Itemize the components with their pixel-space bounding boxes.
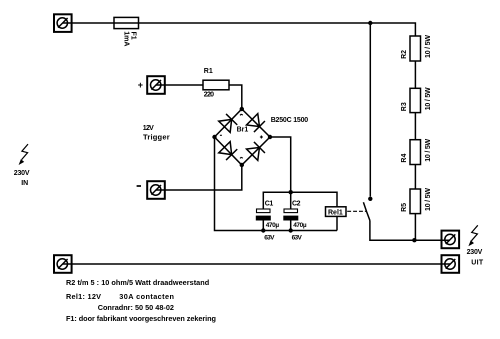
wire bridge bottom to minus terminal <box>156 165 242 190</box>
svg-text:230V: 230V <box>467 249 483 256</box>
svg-text:63V: 63V <box>292 234 303 241</box>
wire R3-R4 <box>414 113 416 140</box>
label 12V Trigger <box>143 125 170 142</box>
svg-text:12V: 12V <box>143 125 154 132</box>
svg-text:+: + <box>138 80 143 90</box>
terminal 230V-out lower <box>442 255 460 273</box>
cap top rail <box>263 192 337 209</box>
svg-text:R2: R2 <box>401 50 408 59</box>
notes text block <box>66 278 216 323</box>
junction node R-chain bottom <box>412 238 416 242</box>
svg-text:470µ: 470µ <box>266 222 280 229</box>
wire top rail from X1 to top-right corner <box>63 23 416 36</box>
mains arrow 230V uit <box>468 225 477 246</box>
svg-text:10 / 5W: 10 / 5W <box>425 188 432 211</box>
svg-text:Rel1: Rel1 <box>328 210 343 217</box>
svg-text:R5: R5 <box>401 203 408 212</box>
svg-text:B250C 1500: B250C 1500 <box>271 117 309 124</box>
svg-text:F1: door fabrikant voorgeschre: F1: door fabrikant voorgeschreven zekeri… <box>66 314 216 323</box>
svg-text:Trigger: Trigger <box>143 133 170 142</box>
wire bridge right node to cap top rail <box>270 137 291 192</box>
svg-text:R2 t/m 5 : 10 ohm/5 Watt draad: R2 t/m 5 : 10 ohm/5 Watt draadweerstand <box>66 278 209 287</box>
svg-text:C1: C1 <box>265 201 274 208</box>
svg-text:10 / 5W: 10 / 5W <box>425 35 432 58</box>
label F1 value <box>122 31 136 46</box>
wire contact to bottom rail <box>370 221 450 241</box>
resistor R4 <box>410 140 421 165</box>
diode D-bottomright <box>247 142 266 161</box>
bridge rectifier Br1 diamond <box>215 109 271 165</box>
relay contact lever <box>363 202 370 220</box>
svg-text:Conradnr: 50 50 48-02: Conradnr: 50 50 48-02 <box>98 303 174 312</box>
resistor R2 <box>410 36 421 61</box>
svg-text:10 / 5W: 10 / 5W <box>425 138 432 161</box>
resistor R5 <box>410 189 421 214</box>
wire R5 down to bottom node <box>414 214 416 241</box>
svg-text:IN: IN <box>21 180 28 187</box>
svg-text:30A contacten: 30A contacten <box>119 292 174 301</box>
relay coil Rel1 <box>326 207 347 217</box>
bridge corner nodes <box>212 107 272 167</box>
terminal minus 12V <box>147 181 165 199</box>
wire bottom rail <box>63 263 450 265</box>
diode D-topright <box>247 114 266 133</box>
wire R2-R3 <box>414 61 416 88</box>
resistor R3 <box>410 88 421 112</box>
junction nodes cap bottoms <box>261 228 265 232</box>
svg-text:220: 220 <box>204 92 214 99</box>
wire from top rail down to relay contact <box>369 23 371 197</box>
svg-text:R3: R3 <box>401 102 408 111</box>
terminal X2 bottom-left <box>54 255 72 273</box>
wire Rel1 coil to bottom rail <box>336 216 338 231</box>
wire bridge left node down to cap bottom rail <box>215 137 338 231</box>
terminal 230V-out upper <box>442 231 460 249</box>
svg-text:R4: R4 <box>401 154 408 163</box>
junction node on top rail <box>368 21 372 25</box>
diode D-bottomleft <box>219 142 238 161</box>
wire C2 top <box>290 192 292 209</box>
fuse F1 <box>114 17 139 28</box>
relay contact fixed node <box>368 197 372 201</box>
svg-text:470µ: 470µ <box>293 222 307 229</box>
resistor R1 <box>203 80 229 90</box>
svg-text:C2: C2 <box>292 201 301 208</box>
capacitor C2 <box>283 209 298 231</box>
svg-text:63V: 63V <box>264 234 275 241</box>
svg-text:R1: R1 <box>204 68 213 75</box>
wire R1 to bridge top <box>229 85 242 109</box>
svg-text:10 / 5W: 10 / 5W <box>425 87 432 110</box>
mains arrow 230V in <box>19 144 28 165</box>
svg-text:Rel1: 12V: Rel1: 12V <box>66 292 101 301</box>
svg-text:F1: F1 <box>129 32 136 40</box>
wire R4-R5 <box>414 165 416 190</box>
svg-text:230V: 230V <box>14 170 30 177</box>
dashed link relay to contact <box>347 210 367 212</box>
svg-text:UIT: UIT <box>471 260 484 267</box>
minus sign trigger <box>137 185 141 187</box>
terminal plus 12V <box>147 76 165 94</box>
bridge polarity marks <box>220 114 263 158</box>
capacitor C1 <box>256 209 271 231</box>
junction node C2 top <box>289 190 293 194</box>
wire plus terminal to R1 <box>156 84 203 86</box>
diode D-topleft <box>219 114 238 133</box>
svg-text:Br1: Br1 <box>237 127 249 134</box>
terminal X1 230V-in <box>54 14 72 32</box>
svg-text:1mA: 1mA <box>122 31 129 46</box>
